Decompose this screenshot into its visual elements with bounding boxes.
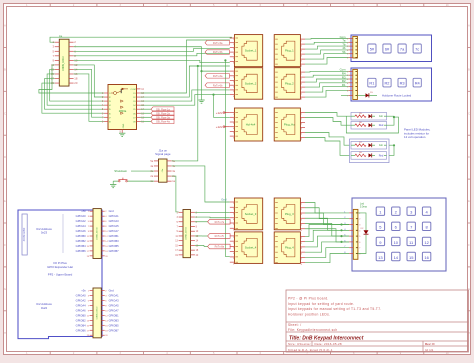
node key 3 <box>407 207 415 215</box>
wire Plug_3 pin3 to keypad pin3 <box>305 213 349 225</box>
svg-text:5.0ma: 5.0ma <box>360 206 367 209</box>
node key 9 <box>376 237 384 245</box>
wire P4 pin11 to U5 pin1 <box>39 65 104 93</box>
svg-text:GPIOB1: GPIOB1 <box>109 313 120 317</box>
svg-text:2803a: 2803a <box>119 109 127 113</box>
svg-text:14: 14 <box>394 255 399 260</box>
op-amp U5 ULN2803A darlington array <box>108 85 137 130</box>
svg-text:GPIO Expander Hat: GPIO Expander Hat <box>47 265 73 269</box>
wire U5 O2 to Socket_1 shield <box>141 66 230 97</box>
node key 7a <box>398 44 406 53</box>
svg-text:Grn: Grn <box>379 144 384 147</box>
wire Plug_4 pin6 to keypad pin8 <box>305 254 349 263</box>
svg-text:GPIOB5: GPIOB5 <box>109 244 120 248</box>
connector Plug_Ho RJ45 <box>274 108 300 141</box>
svg-text:Plug_4: Plug_4 <box>285 246 294 250</box>
svg-text:GPIOB1: GPIOB1 <box>109 234 120 238</box>
wire P4 pin12 to U5 pin2 <box>74 65 104 97</box>
wire J2 pin2 to Socket_3 pin3 <box>195 211 230 213</box>
switch SW1 shutdown <box>127 180 153 182</box>
svg-text:GPIOA2: GPIOA2 <box>76 219 87 223</box>
blue outline LED group 2 <box>350 139 390 163</box>
junction keypad pin5 <box>340 235 342 237</box>
wire long vertical to Socket_4 pin5 <box>225 60 229 256</box>
ground symbol near sockets <box>198 100 204 103</box>
svg-text:10: 10 <box>394 240 399 245</box>
junction module group2 <box>393 144 395 146</box>
svg-text:15: 15 <box>409 255 414 260</box>
net label RxTx-5a <box>205 40 229 45</box>
net label RxTx-5b <box>205 50 229 55</box>
svg-text:GPIOB0: GPIOB0 <box>76 234 87 238</box>
svg-text:Red: Red <box>379 124 384 127</box>
junction keypad pin6 <box>340 241 342 243</box>
svg-text:GPIOB3: GPIOB3 <box>109 239 120 243</box>
svg-text:Plug_Ho: Plug_Ho <box>284 123 295 127</box>
connector P2 GPIO header <box>93 209 101 259</box>
svg-text:0x23: 0x23 <box>41 231 48 235</box>
svg-text:Socket_3: Socket_3 <box>245 212 257 216</box>
wire J1a pin5a up to Socket_1 shield net <box>172 66 198 161</box>
junction keypad pin4 <box>340 229 342 231</box>
svg-text:GPIOB2: GPIOB2 <box>76 318 87 322</box>
wire Plug_Ho pin1 to module DS1 <box>305 113 351 117</box>
junction GND net <box>200 70 202 72</box>
node key 10 <box>392 237 400 245</box>
title block <box>286 290 469 352</box>
svg-text:GPIOA0: GPIOA0 <box>76 294 87 298</box>
U5 internal darlington symbol <box>114 92 117 95</box>
svg-text:KiCad E.D.A. kicad (5.6.2)-1: KiCad E.D.A. kicad (5.6.2)-1 <box>288 348 333 352</box>
ground SW1 <box>110 185 116 188</box>
svg-text:GPIOA3: GPIOA3 <box>109 299 120 303</box>
wire P4 pin6 to Socket_1 pin3 <box>74 49 230 52</box>
svg-text:CONN_02X10: CONN_02X10 <box>96 306 98 320</box>
svg-text:5b: 5b <box>342 50 346 54</box>
U5 pin10 COM <box>137 88 141 90</box>
net label DB_Row-4a <box>141 120 152 122</box>
svg-text:GPIOB7: GPIOB7 <box>109 328 120 332</box>
wire Plug_3 pin2 to keypad pin2 <box>305 208 349 219</box>
resistor R7 + LED DS3 module Grn <box>351 141 387 149</box>
net label RxTx-7a <box>195 221 208 223</box>
svg-text:R3: R3 <box>400 81 405 86</box>
svg-text:20: 20 <box>74 81 78 85</box>
node key 13 <box>376 252 384 260</box>
svg-text:Gnd: Gnd <box>221 198 227 202</box>
svg-text:Signal page: Signal page <box>155 152 171 156</box>
connector Plug_2 RJ45 <box>274 68 300 100</box>
wire Plug_1 pin2 to panel P7 pin2 <box>305 42 349 44</box>
wire Plug_Ho pin5 to module DS3 <box>305 133 350 146</box>
node key R2 <box>383 78 391 87</box>
wire Plug_1 pin5 to panel P7 pin5 <box>305 54 349 59</box>
svg-text:Input keypads for manual setti: Input keypads for manual setting of T1-T… <box>288 307 382 311</box>
connector Plug_3 RJ45 <box>274 198 300 230</box>
svg-text:GPIOA4: GPIOA4 <box>76 224 87 228</box>
svg-text:Hol-4x4: Hol-4x4 <box>246 123 256 127</box>
LED D2 keypad <box>358 213 366 230</box>
wire Plug_4 pin4 to keypad pin6 <box>305 242 349 252</box>
wire P4 pin17 to U5 pin5 <box>45 79 105 110</box>
connector Socket_3 RJ45 <box>234 198 262 230</box>
svg-text:Gnd: Gnd <box>109 289 115 293</box>
svg-text:Rev: D: Rev: D <box>425 342 435 346</box>
wire P4 pin4 to GND net vertical <box>74 47 202 100</box>
svg-text:GPIOA3: GPIOA3 <box>109 219 120 223</box>
svg-text:7c: 7c <box>415 47 419 52</box>
wire U5 O3 to Socket_2 pin5 <box>141 90 230 101</box>
svg-text:PP2 - @ Pi Plus board.: PP2 - @ Pi Plus board. <box>288 297 329 301</box>
junction shield net <box>197 65 199 67</box>
connector Plug_4 RJ45 <box>274 232 300 264</box>
svg-text:40 Pin GPIO: 40 Pin GPIO <box>23 228 26 242</box>
svg-text:R1: R1 <box>369 81 374 86</box>
svg-text:GPIOB4: GPIOB4 <box>76 323 87 327</box>
svg-text:Plug_2: Plug_2 <box>285 81 294 85</box>
svg-text:Date: 2016-05-28: Date: 2016-05-28 <box>315 342 342 346</box>
net label DB_Row-3a <box>141 116 152 118</box>
svg-text:12 volt operation.: 12 volt operation. <box>404 135 426 139</box>
node key 4 <box>422 207 430 215</box>
svg-text:GPIOA6: GPIOA6 <box>76 229 87 233</box>
wire Plug_3 pin4 to keypad pin4 <box>305 218 349 230</box>
svg-text:File: KeypadInterconnect.sch: File: KeypadInterconnect.sch <box>288 328 338 332</box>
svg-text:GPIOA7: GPIOA7 <box>109 308 120 312</box>
svg-text:+5v: +5v <box>81 289 86 293</box>
connector P3 GPIO header <box>93 288 101 338</box>
connector Socket_4 RJ45 <box>234 232 262 264</box>
wire Plug_4 pin2 to keypad pin4 <box>305 230 349 241</box>
svg-text:DB_Row-4a: DB_Row-4a <box>156 120 170 123</box>
svg-text:Plug_1: Plug_1 <box>285 49 294 53</box>
connector P4 20-pin header <box>59 39 69 86</box>
panel U8 indicator module R1-R4 <box>351 68 432 101</box>
connector Plug_1 RJ45 <box>274 35 300 67</box>
svg-text:RxTx-7b: RxTx-7b <box>215 235 225 238</box>
svg-text:PP2 - Upper Board: PP2 - Upper Board <box>48 273 73 277</box>
node key R4 <box>413 78 421 87</box>
svg-text:C: C <box>468 112 470 115</box>
wire Plug_2 pin4 to panel P8 pin4 <box>305 83 349 87</box>
node key 1 <box>376 207 384 215</box>
wire Plug_1 pin3 to panel P7 pin3 <box>305 46 349 49</box>
wire Plug_3 pin1 to keypad pin1 <box>305 203 349 213</box>
svg-text:GPIOA1: GPIOA1 <box>109 294 120 298</box>
svg-text:GPIOB6: GPIOB6 <box>76 328 87 332</box>
svg-text:R4: R4 <box>415 81 421 86</box>
net label DB_Row-2a <box>141 112 152 114</box>
connector Socket_2 RJ45 <box>234 68 262 100</box>
wire SW1 to ground <box>112 181 114 184</box>
svg-text:0x22: 0x22 <box>41 306 48 310</box>
resistor R8 + LED DS4 module Red <box>351 152 387 160</box>
node key 7c <box>413 44 421 53</box>
wire Plug_3 pin6 to keypad pin6 <box>305 229 349 242</box>
svg-text:GPIOB6: GPIOB6 <box>76 249 87 253</box>
connector Socket_1 RJ45 <box>234 35 262 67</box>
svg-text:RxTx-6b: RxTx-6b <box>213 84 223 87</box>
wire P4 pin8 to Socket_1 pin4 <box>74 53 230 56</box>
wire Plug_4 pin3 to keypad pin5 <box>305 236 349 247</box>
svg-text:Holdover Route Locked: Holdover Route Locked <box>382 94 412 98</box>
wire P4 pin16 to U5 pin8 <box>74 74 104 121</box>
node key 6 <box>392 222 400 230</box>
svg-text:Red: Red <box>379 154 384 157</box>
svg-text:+12V: +12V <box>216 125 223 129</box>
wire Plug_1 pin4 to panel P7 pin4 <box>305 50 349 54</box>
svg-text:GPIOA4: GPIOA4 <box>76 303 87 307</box>
junction keypad pin3 <box>340 223 342 225</box>
junction long vertical <box>224 59 226 61</box>
wire +12V distribution vertical <box>214 95 230 118</box>
ground U5 <box>119 133 125 136</box>
svg-text:COM: COM <box>130 89 135 91</box>
net label DB_Row-1a <box>141 108 152 110</box>
svg-text:Socket_4: Socket_4 <box>245 246 257 250</box>
svg-text:GPIOB2: GPIOB2 <box>76 239 87 243</box>
svg-text:CONN_02X10: CONN_02X10 <box>63 55 65 70</box>
svg-text:H: H <box>4 332 6 335</box>
svg-text:+5v: +5v <box>81 209 86 213</box>
resistor R5 + LED DS1 module Grn <box>351 112 387 120</box>
wire Plug_2 pin6 to panel P8 pin6 <box>305 90 349 97</box>
svg-text:RxTx-8a: RxTx-8a <box>215 246 225 249</box>
svg-text:GPIOA2: GPIOA2 <box>76 299 87 303</box>
svg-text:GPIOA7: GPIOA7 <box>109 229 120 233</box>
wire Plug_2 pin1 to panel P8 pin1 <box>305 70 349 73</box>
node key 14 <box>392 252 400 260</box>
node key 15 <box>407 252 415 260</box>
svg-text:P4: P4 <box>59 35 63 39</box>
U5 pin9 GND <box>121 130 123 134</box>
svg-text:GPIOB0: GPIOB0 <box>76 313 87 317</box>
wire Plug_2 pin2 to panel P8 pin2 <box>305 75 349 77</box>
connector J2 20-pin header <box>183 210 191 258</box>
wire Plug_Ho pin2 to module DS2 <box>305 118 351 126</box>
node key 5# <box>368 44 376 53</box>
svg-text:G: G <box>4 288 6 291</box>
svg-text:18: 18 <box>74 77 78 81</box>
svg-text:Title: DnB Keypad Interconnect: Title: DnB Keypad Interconnect <box>289 335 364 341</box>
svg-text:Plug_3: Plug_3 <box>285 212 294 216</box>
svg-text:Gnd: Gnd <box>109 209 115 213</box>
wire Plug_2 pin3 to panel P8 pin3 <box>305 79 349 82</box>
node 40 Pin GPIO block <box>22 214 27 255</box>
net label RxTx-7b <box>195 235 202 237</box>
svg-text:CONN_02X10: CONN_02X10 <box>186 226 188 240</box>
connector Hol-4x4 RJ45 <box>234 108 262 141</box>
svg-text:D: D <box>468 156 470 159</box>
svg-text:GPIOB3: GPIOB3 <box>109 318 120 322</box>
node key 5 <box>376 222 384 230</box>
wire Plug_3 pin5 to keypad pin5 <box>305 224 349 237</box>
svg-text:Holdover position LEDs.: Holdover position LEDs. <box>288 312 330 316</box>
svg-text:12: 12 <box>424 240 429 245</box>
wire P4 pin13 to U5 pin3 <box>50 69 104 101</box>
wire Plug_Ho pin6 to module DS4 <box>305 138 350 156</box>
board outline I/O Pi Plus <box>18 210 102 339</box>
svg-text:Size: USLetter: Size: USLetter <box>288 342 311 346</box>
svg-text:GPIOB7: GPIOB7 <box>109 249 120 253</box>
svg-text:Socket_1: Socket_1 <box>245 49 257 53</box>
wire J1a pin4a down to Socket_3 Gnd <box>172 166 230 202</box>
svg-text:Socket_2: Socket_2 <box>245 81 257 85</box>
svg-text:GPIOA6: GPIOA6 <box>76 308 87 312</box>
wire module group2 return <box>389 145 394 155</box>
svg-text:GPIOA5: GPIOA5 <box>109 224 120 228</box>
node key R1 <box>368 78 376 87</box>
wire module group1 to +12 rail <box>346 116 398 133</box>
resistor R6 + LED DS2 module Red <box>351 121 387 129</box>
svg-text:RxTx-5a: RxTx-5a <box>213 42 223 45</box>
wire P4 pin15 to U5 pin4 <box>47 74 104 105</box>
wire module group1 return <box>387 116 395 125</box>
svg-text:RxTx-6a: RxTx-6a <box>213 75 223 78</box>
wire U5 O4 to Socket_2 pin6 <box>141 95 230 106</box>
svg-text:+12V: +12V <box>216 111 223 115</box>
node key 6# <box>383 44 391 53</box>
svg-text:Id: 1/1: Id: 1/1 <box>425 348 434 352</box>
node key R3 <box>398 78 406 87</box>
node key 8 <box>422 222 430 230</box>
svg-text:Sheet: /: Sheet: / <box>288 323 301 327</box>
svg-text:GPIOA1: GPIOA1 <box>109 214 120 218</box>
net label RxTx-8a <box>195 244 204 246</box>
wire Plug_4 pin1 to keypad pin3 <box>305 225 349 237</box>
wire P4 pin1 loop over top to Socket_1 pin1 <box>50 37 232 42</box>
wire J1a pin3a west stub <box>131 170 154 172</box>
node key 11 <box>407 237 415 245</box>
wire P4 pin14 to U5 pin7 <box>74 69 104 117</box>
node key 7 <box>407 222 415 230</box>
wire P4 pin19 to U5 pin6 <box>42 83 104 113</box>
wire Plug_4 pin5 to keypad pin7 <box>305 248 349 258</box>
svg-text:Grn: Grn <box>379 115 384 118</box>
svg-text:16: 16 <box>424 255 429 260</box>
svg-text:Input keypad for setting of ya: Input keypad for setting of yard route. <box>288 302 354 306</box>
wire U5 O1 to Socket_1 pin1 area <box>141 40 230 93</box>
wire J2 pin4 to Socket_3 pin4 <box>195 216 230 219</box>
wire panel P8 pin7 stub <box>341 94 349 96</box>
svg-text:GPIOA5: GPIOA5 <box>109 303 120 307</box>
svg-text:R2: R2 <box>385 81 390 86</box>
junction module group1 <box>393 116 395 118</box>
svg-text:GPIOB4: GPIOB4 <box>76 244 87 248</box>
panel keypad 4x4 matrix <box>352 198 446 271</box>
panel U7 indicator module <box>351 35 432 62</box>
LED D5 holdover locked <box>357 94 365 96</box>
net label RxTx-6a <box>205 74 229 79</box>
net label RxTx-6b <box>205 83 229 88</box>
svg-text:CONN_02X10: CONN_02X10 <box>96 226 98 240</box>
node key 2 <box>392 207 400 215</box>
svg-text:13: 13 <box>378 255 383 260</box>
svg-text:GPIOB5: GPIOB5 <box>109 323 120 327</box>
svg-text:GND: GND <box>123 123 125 128</box>
svg-text:Shutdown: Shutdown <box>114 169 127 173</box>
wire Plug_1 pin6 to panel P7 pin6 <box>305 58 349 65</box>
svg-text:R1: R1 <box>342 83 346 87</box>
wire Plug_2 pin5 to panel P8 pin5 <box>305 87 349 93</box>
svg-text:C: C <box>4 112 6 115</box>
connector J1a <box>159 159 168 182</box>
svg-text:GPIOA0: GPIOA0 <box>76 214 87 218</box>
wire junction to Socket_2 pin1 <box>202 70 230 72</box>
node key 12 <box>422 237 430 245</box>
junction +12V rail <box>212 94 214 96</box>
svg-text:RxTx-7a: RxTx-7a <box>215 221 225 224</box>
wire Plug_1 pin1 to panel P7 pin1 <box>305 38 349 41</box>
wire J1a pin2a to J2 pin1 <box>172 176 179 212</box>
svg-text:D: D <box>4 156 6 159</box>
wire P4 pin10 to Socket_1 pin6 <box>74 60 230 62</box>
svg-text:RxTx-5b: RxTx-5b <box>213 51 223 54</box>
node key 16 <box>422 252 430 260</box>
